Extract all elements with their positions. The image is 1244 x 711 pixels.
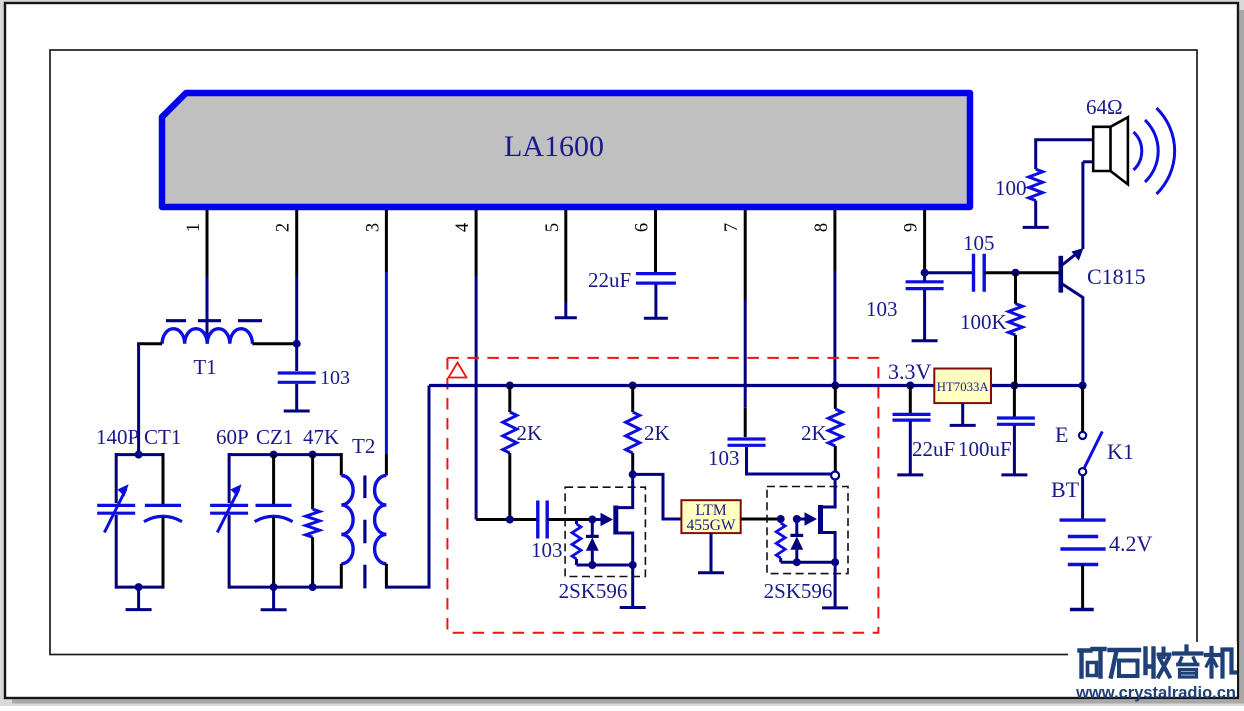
svg-text:6: 6 bbox=[633, 223, 653, 232]
pin 1 wire bbox=[206, 210, 209, 276]
CZ1 bottom rail bbox=[229, 586, 341, 589]
resistor 100 zigzag bbox=[1029, 169, 1043, 200]
CT1 trimmer plates bbox=[144, 505, 182, 521]
page shadow right bbox=[1240, 10, 1244, 702]
pin 4 wire bbox=[475, 210, 478, 276]
svg-text:2SK596: 2SK596 bbox=[764, 579, 833, 603]
CT1 trimmer bottom wire bbox=[162, 517, 165, 589]
svg-text:1: 1 bbox=[184, 223, 204, 232]
CT1 trimmer top wire bbox=[162, 453, 165, 505]
transistor Q3 C1815 bbox=[1059, 256, 1064, 293]
CZ1 cap branch top wire bbox=[272, 455, 275, 505]
node switch E terminal bbox=[1079, 432, 1086, 439]
resistor 2K-2 top leg bbox=[631, 386, 634, 413]
variable capacitor CZ1 plates bbox=[210, 505, 248, 513]
svg-text:2K: 2K bbox=[644, 421, 670, 445]
transistor Q2 2SK596 dashed box bbox=[767, 487, 848, 574]
resistor 2K-1 zigzag bbox=[503, 412, 517, 453]
T1 right wire bbox=[252, 342, 296, 345]
Q1 channel bar bbox=[613, 506, 618, 535]
wire pin9 cap leg bbox=[923, 273, 926, 281]
logo white backdrop bbox=[1068, 642, 1237, 696]
T2 secondary bottom wire bbox=[385, 564, 388, 589]
svg-text:4.2V: 4.2V bbox=[1109, 531, 1153, 556]
switch K1 blade bbox=[1085, 432, 1103, 468]
svg-text:7: 7 bbox=[722, 223, 742, 232]
node mixer input bbox=[506, 516, 514, 524]
svg-text:103: 103 bbox=[531, 538, 563, 562]
speaker waves bbox=[1134, 108, 1175, 194]
Q2 channel bar bbox=[818, 505, 823, 534]
wire collector down bbox=[1081, 297, 1084, 386]
node 100uF top bbox=[1010, 382, 1018, 390]
wire rail to switch E bbox=[1081, 386, 1084, 432]
pin 3 wire bbox=[385, 210, 388, 272]
wire speaker top lead bbox=[1036, 140, 1094, 170]
battery bottom stem bbox=[1081, 565, 1084, 610]
resistor 2K-3 bottom leg bbox=[834, 446, 837, 472]
resistor 2K-3 zigzag bbox=[828, 409, 842, 446]
svg-text:100uF: 100uF bbox=[958, 437, 1012, 461]
filter LTM455GW body bbox=[681, 500, 740, 533]
wire pin7 cap to ring bbox=[747, 447, 832, 474]
node 2K-3 top bbox=[831, 382, 839, 390]
Q1 internal resistor bottom leg bbox=[575, 559, 578, 565]
pin 6 wire bbox=[654, 210, 657, 274]
node Q2 gate bbox=[793, 515, 801, 523]
Q1 drain lead bbox=[616, 476, 633, 508]
svg-text:CT1: CT1 bbox=[144, 425, 181, 449]
svg-text:8: 8 bbox=[812, 223, 832, 232]
CT1 top rail bbox=[116, 453, 163, 456]
CZ1 top rail bbox=[229, 453, 341, 456]
CT1 bottom rail bbox=[116, 586, 163, 589]
resistor 47K top leg bbox=[311, 455, 314, 510]
wire 100uF top leg bbox=[1013, 386, 1016, 418]
CZ1 cap branch bottom wire bbox=[272, 517, 275, 589]
svg-text:2K: 2K bbox=[517, 421, 543, 445]
svg-text:4: 4 bbox=[453, 223, 473, 232]
capacitor 22uF at pin6 bbox=[636, 274, 676, 284]
ground 100uF bbox=[1001, 425, 1027, 475]
CZ1 left branch top wire bbox=[228, 453, 231, 503]
page shadow bottom bbox=[12, 700, 1244, 704]
svg-text:www.crystalradio.cn: www.crystalradio.cn bbox=[1075, 684, 1236, 702]
node CZ1 cap top bbox=[270, 451, 278, 459]
ground LTM455GW bbox=[698, 533, 724, 573]
Q1 internal resistor bbox=[572, 524, 581, 559]
svg-text:CZ1: CZ1 bbox=[256, 425, 293, 449]
wire pin9 to 105 bbox=[925, 271, 974, 274]
resistor 100K top leg bbox=[1014, 273, 1017, 304]
resistor 2K-2 zigzag bbox=[626, 412, 640, 453]
svg-text:BT: BT bbox=[1051, 477, 1080, 502]
pin 5 wire bbox=[564, 210, 567, 302]
logo char shi bbox=[1110, 650, 1140, 677]
capacitor 103 series left bbox=[538, 501, 547, 539]
resistor 47K bottom leg bbox=[311, 537, 314, 588]
node base junction bbox=[1012, 269, 1020, 277]
svg-text:9: 9 bbox=[902, 223, 922, 232]
svg-text:105: 105 bbox=[963, 231, 995, 255]
resistor 2K-1 top leg bbox=[508, 386, 511, 413]
CT1 left branch top wire bbox=[115, 453, 118, 503]
resistor 100K zigzag bbox=[1009, 304, 1023, 335]
svg-text:3.3V: 3.3V bbox=[888, 359, 932, 384]
wire 22uF top leg bbox=[909, 386, 912, 415]
svg-text:103: 103 bbox=[320, 367, 350, 389]
resistor 2K-3 top leg bbox=[834, 386, 837, 410]
ground 103 at pin9 bbox=[912, 290, 938, 341]
wire pin2 to C103a bbox=[295, 344, 298, 371]
regulator HT7033A body bbox=[934, 369, 991, 404]
Q1 gate resistor top tick bbox=[575, 520, 578, 525]
node 2K-1 top bbox=[506, 382, 514, 390]
Q2 source lead bbox=[821, 533, 836, 563]
capacitor 103 at pin2 bbox=[278, 373, 316, 382]
variable capacitor CT1 arrow bbox=[104, 489, 126, 533]
svg-text:2K: 2K bbox=[801, 421, 827, 445]
svg-text:HT7033A: HT7033A bbox=[937, 380, 990, 394]
ground pin5 bbox=[555, 302, 577, 318]
svg-text:100K: 100K bbox=[960, 310, 1007, 334]
pin 8 wire bbox=[833, 210, 836, 271]
svg-text:T2: T2 bbox=[352, 434, 375, 458]
battery bottom bar bbox=[1070, 608, 1094, 611]
T1 core dashed line bbox=[166, 319, 262, 322]
svg-text:2: 2 bbox=[274, 223, 294, 232]
node switch BT terminal bbox=[1079, 468, 1086, 475]
svg-text:5: 5 bbox=[543, 223, 563, 232]
Q2 diode wire top bbox=[795, 519, 798, 534]
resistor 100K bottom leg bbox=[1014, 335, 1017, 386]
T2 primary top wire bbox=[340, 453, 343, 476]
capacitor 100uF bbox=[997, 418, 1035, 424]
variable capacitor CZ1 arrow bbox=[217, 489, 239, 533]
ground 22uF output bbox=[897, 421, 923, 475]
T1 left wire bbox=[137, 342, 162, 345]
resistor 2K-2 bottom leg bbox=[631, 453, 634, 474]
ground Q2 source bbox=[822, 562, 848, 608]
Q1 diode wire bottom bbox=[591, 551, 594, 565]
wire speaker bottom lead bbox=[1083, 160, 1093, 163]
transformer T2 secondary coil bbox=[375, 476, 387, 564]
svg-text:K1: K1 bbox=[1107, 439, 1134, 464]
node Q1 drain bbox=[629, 470, 637, 478]
resistor 2K-1 bottom leg bbox=[508, 453, 511, 520]
ground pin6 bbox=[644, 285, 668, 319]
node rail to switch junction bbox=[1079, 382, 1087, 390]
CZ1 left branch bottom wire bbox=[228, 515, 231, 589]
node 22uF top bbox=[906, 382, 914, 390]
Q2 internal resistor bottom leg bbox=[779, 558, 782, 562]
svg-text:T1: T1 bbox=[193, 355, 216, 379]
op-amp U1 LA1600 IC body bbox=[162, 93, 970, 207]
node pin9 junction bbox=[921, 269, 929, 277]
svg-text:60P: 60P bbox=[216, 425, 249, 449]
node Q1 source bottom bbox=[629, 561, 637, 569]
Q1 module bottom rail bbox=[577, 564, 633, 567]
T2 core dashes bbox=[363, 476, 366, 589]
svg-text:LA1600: LA1600 bbox=[504, 130, 604, 163]
schematic frame bbox=[50, 50, 1197, 655]
diode D2 bbox=[790, 534, 803, 537]
Q2 internal resistor bbox=[776, 523, 785, 558]
wire 3.3V rail bbox=[429, 384, 1083, 387]
logo char ji bbox=[1206, 648, 1235, 677]
node 47K bottom bbox=[309, 583, 317, 591]
T2 bottom rail to rail riser bbox=[386, 386, 429, 588]
svg-text:22uF: 22uF bbox=[912, 437, 955, 461]
wire Q1 drain to filter bbox=[633, 474, 682, 519]
svg-text:E: E bbox=[1055, 422, 1068, 447]
svg-text:22uF: 22uF bbox=[588, 268, 631, 292]
CZ1 cap plates bbox=[255, 505, 293, 521]
Q2 gate arrow bbox=[800, 518, 810, 521]
svg-text:2SK596: 2SK596 bbox=[559, 579, 628, 603]
marker red triangle bbox=[449, 363, 467, 378]
wire cap to left module bbox=[547, 518, 592, 521]
variable capacitor CT1 plates bbox=[97, 505, 135, 513]
node Q2 diode bottom bbox=[793, 558, 801, 566]
wire emitter to speaker bbox=[1081, 162, 1084, 249]
ground below 103 at pin2 bbox=[284, 384, 310, 411]
logo char shou bbox=[1146, 649, 1154, 677]
capacitor 105 series bbox=[974, 254, 985, 292]
wire filter out bbox=[741, 518, 781, 521]
ground Q1 source bbox=[620, 565, 646, 608]
Q1 gate arrow bbox=[596, 518, 606, 521]
Q2 gate resistor top tick bbox=[779, 519, 782, 523]
Q1 diode wire top bbox=[591, 520, 594, 536]
inductor T1 coil bbox=[162, 329, 252, 344]
logo char yin bbox=[1174, 647, 1202, 654]
svg-text:103: 103 bbox=[708, 446, 740, 470]
Q1 source lead bbox=[616, 533, 633, 565]
node Q2 gate entry bbox=[777, 515, 785, 523]
svg-text:3: 3 bbox=[363, 223, 383, 232]
transistor Q1 2SK596 dashed box bbox=[565, 487, 645, 576]
svg-text:455GW: 455GW bbox=[686, 517, 735, 534]
Q2 drain lead bbox=[821, 480, 836, 508]
svg-text:C1815: C1815 bbox=[1087, 264, 1146, 289]
node CT1 bottom bbox=[135, 583, 143, 591]
svg-text:47K: 47K bbox=[303, 425, 339, 449]
capacitor 22uF output bbox=[893, 414, 931, 420]
ground CZ1 bbox=[261, 587, 287, 610]
capacitor 103 at pin9 bbox=[906, 282, 944, 289]
battery BT 4.2V bbox=[1060, 520, 1106, 564]
dashed selection box bbox=[447, 358, 878, 633]
ground 100 resistor bbox=[1023, 201, 1049, 228]
Q2 module bottom rail bbox=[781, 561, 835, 564]
logo char kuang bbox=[1080, 649, 1105, 677]
node Q1 diode bottom bbox=[588, 561, 596, 569]
node Q1 gate bbox=[588, 516, 596, 524]
ground HT7033A bbox=[950, 403, 976, 425]
ground CT1 bbox=[126, 587, 152, 610]
resistor 47K zigzag bbox=[306, 509, 320, 537]
svg-text:64Ω: 64Ω bbox=[1086, 95, 1123, 119]
node Q2 source bottom bbox=[831, 558, 839, 566]
capacitor 103 at pin7 bbox=[728, 439, 766, 445]
Q2 diode wire bottom bbox=[795, 550, 798, 563]
node T1/pin2 junction bbox=[293, 340, 301, 348]
svg-text:140P: 140P bbox=[96, 425, 139, 449]
pin 7 wire bbox=[744, 210, 747, 300]
node 2K-2 top bbox=[629, 382, 637, 390]
svg-text:100: 100 bbox=[995, 176, 1027, 200]
wire switch to battery bbox=[1081, 475, 1084, 519]
diode D1 bbox=[586, 535, 599, 538]
pin 9 wire bbox=[923, 210, 926, 271]
transformer T2 primary coil bbox=[341, 476, 353, 564]
node 47K top bbox=[309, 451, 317, 459]
node CT1 top bbox=[135, 451, 143, 459]
pin 2 wire bbox=[295, 210, 298, 276]
node CZ1 cap bottom bbox=[270, 583, 278, 591]
svg-text:103: 103 bbox=[866, 297, 898, 321]
T2 primary bottom wire bbox=[340, 564, 343, 589]
wire pin4 to gate row bbox=[476, 518, 538, 521]
speaker SP bbox=[1093, 117, 1128, 184]
node Q2 drain ring bbox=[831, 472, 839, 480]
wire 105 to base bbox=[984, 271, 1059, 274]
CT1 left branch bottom wire bbox=[115, 515, 118, 589]
